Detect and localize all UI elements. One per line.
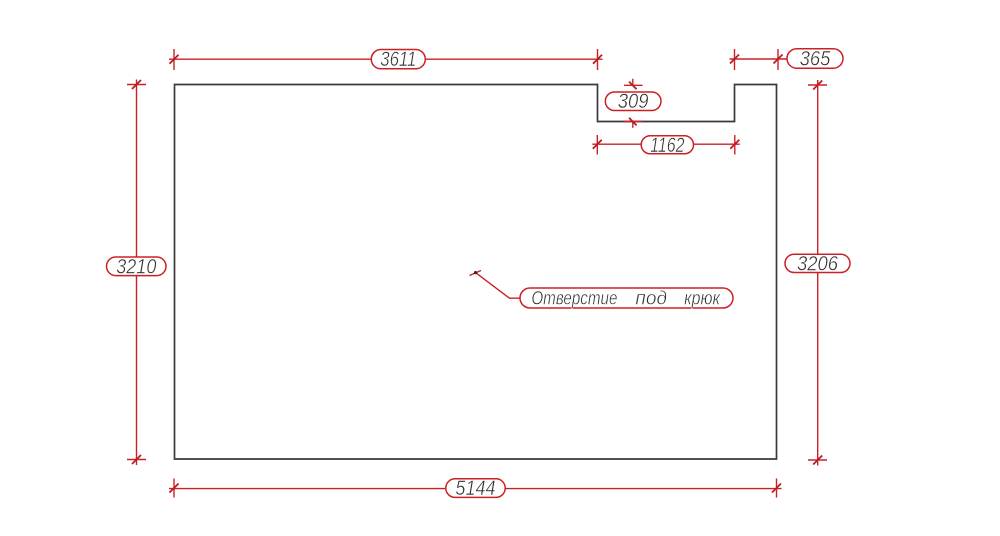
svg-text:Отверстие: Отверстие: [531, 287, 617, 309]
svg-text:365: 365: [800, 47, 832, 70]
svg-text:309: 309: [618, 90, 649, 113]
svg-text:3206: 3206: [797, 252, 838, 275]
svg-text:5144: 5144: [455, 477, 495, 501]
svg-text:3210: 3210: [116, 255, 156, 279]
svg-text:3611: 3611: [380, 48, 416, 71]
svg-text:1162: 1162: [650, 133, 685, 157]
svg-text:под: под: [635, 288, 667, 309]
svg-text:крюк: крюк: [684, 287, 721, 309]
